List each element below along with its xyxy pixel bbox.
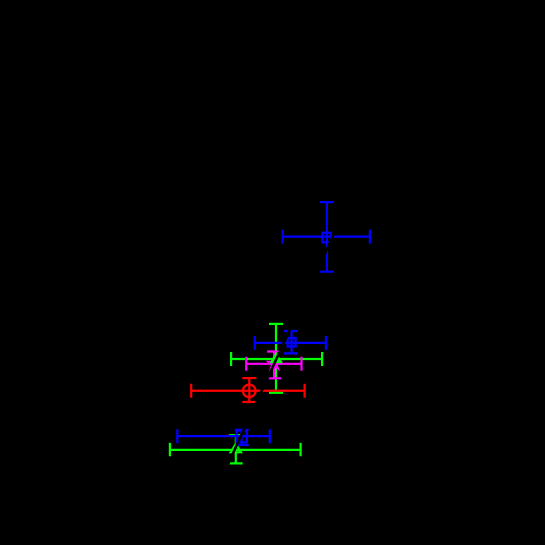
- P5 x error bar: [191, 384, 304, 398]
- P6 y error bar: [235, 430, 249, 445]
- P2 marker: blue open square: [288, 338, 296, 347]
- P2 x error bar: [255, 336, 326, 350]
- P7 marker: green open up triangle: [231, 444, 241, 453]
- P6 marker: blue open square: [237, 430, 247, 442]
- P4 x error bar: [246, 357, 301, 371]
- P3 y error bar: [269, 324, 283, 393]
- P6 error bars (blue, bottom): [177, 429, 269, 445]
- P5 y error bar: [242, 378, 256, 402]
- P4 marker: magenta filled five point star: [267, 356, 282, 370]
- P2 y error bar: [284, 331, 298, 353]
- P4 y error bar: [267, 352, 281, 379]
- P2 error bars (blue, middle): [255, 331, 326, 353]
- P7 x error bar: [170, 443, 301, 456]
- P1 x error bar: [283, 230, 370, 244]
- P1 y error bar: [320, 202, 334, 272]
- P1 error bars (blue, top): [283, 202, 370, 272]
- P6 x error bar: [177, 429, 269, 443]
- P7 y error bar: [229, 435, 243, 463]
- P3 error bars (green, centre cluster): [231, 324, 322, 393]
- P7 error bars (green, bottom): [170, 435, 301, 463]
- P4 error bars (magenta): [246, 352, 301, 379]
- P1 marker: blue open square: [322, 233, 330, 243]
- P5 marker: red open circle: [243, 385, 256, 398]
- P3 marker: green filled up triangle: [270, 352, 283, 363]
- P3 x error bar: [231, 352, 322, 366]
- P5 error bars (red): [191, 378, 304, 402]
- black overlay line (model line, invisible on black background): [207, 150, 373, 510]
